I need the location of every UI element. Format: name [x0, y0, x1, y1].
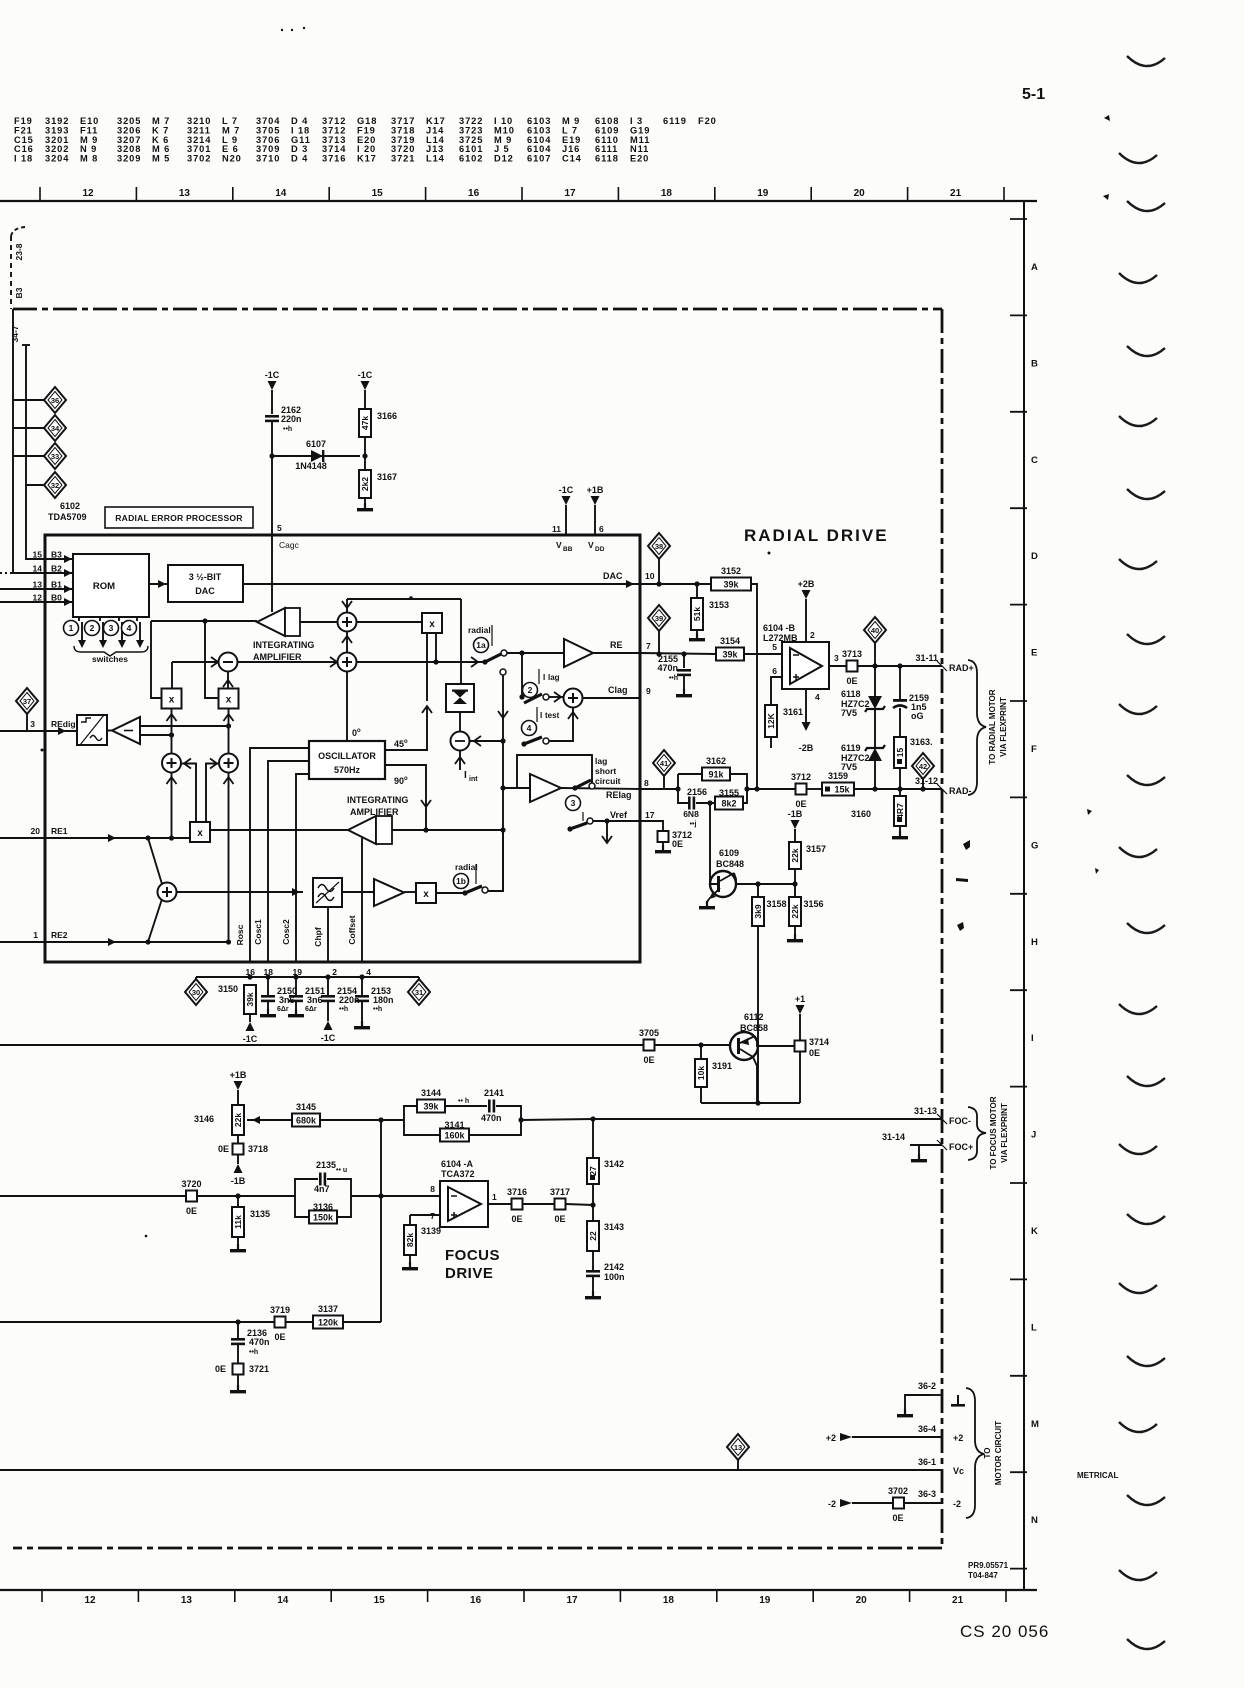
- junction: [145, 939, 150, 944]
- svg-text:31-11: 31-11: [915, 653, 938, 663]
- svg-text:3191: 3191: [712, 1061, 732, 1071]
- resistor 3166: [359, 409, 397, 437]
- junction: [378, 1117, 383, 1122]
- wire into plus1 top: [346, 599, 348, 612]
- svg-text:91k: 91k: [708, 770, 724, 780]
- svg-text:-1C: -1C: [559, 485, 574, 495]
- svg-text:3721: 3721: [249, 1364, 269, 1374]
- switch terminal: [589, 783, 595, 789]
- svg-text:••h: ••h: [249, 1349, 258, 1356]
- resistor 3719 0E: [270, 1305, 290, 1342]
- junction: [675, 786, 680, 791]
- wire: [794, 869, 796, 884]
- svg-text:3136: 3136: [313, 1202, 333, 1212]
- svg-text:18: 18: [661, 188, 673, 199]
- wire ROM to DAC: [149, 583, 168, 585]
- switch lever: [524, 737, 542, 744]
- svg-text:VIA FLEXPRINT: VIA FLEXPRINT: [1000, 1103, 1009, 1163]
- junction: [265, 974, 270, 979]
- svg-text:switches: switches: [92, 654, 128, 664]
- svg-text:I: I: [543, 673, 545, 682]
- wire multD out A: [181, 764, 196, 822]
- svg-text:A: A: [1031, 262, 1038, 273]
- wire: [459, 750, 461, 770]
- wire to FOC node: [521, 1119, 593, 1120]
- wire diag RE1 to plus4: [148, 838, 162, 884]
- comparator triangle: [112, 717, 140, 744]
- wire: [592, 1277, 594, 1295]
- svg-text:M 8: M 8: [80, 154, 98, 164]
- wire: [418, 977, 420, 981]
- svg-text:21: 21: [952, 1595, 964, 1606]
- svg-text:470n: 470n: [481, 1113, 502, 1123]
- wire RE2 to plusR: [228, 773, 230, 943]
- wire: [337, 1196, 351, 1217]
- wire bus vertical: [502, 741, 504, 891]
- resistor 3720 0E: [181, 1179, 201, 1216]
- svg-text:3137: 3137: [318, 1304, 338, 1314]
- switch terminal: [501, 650, 507, 656]
- tick: [536, 707, 538, 722]
- capacitor 2151: [289, 995, 303, 1002]
- svg-text:13: 13: [734, 1443, 742, 1452]
- svg-text:test: test: [545, 711, 560, 720]
- diode 6107 1N4148: [295, 439, 327, 471]
- switch 1a lever: [485, 654, 501, 662]
- switch id 3: [104, 621, 119, 636]
- oscillator block: [309, 741, 385, 779]
- junction: [500, 785, 505, 790]
- svg-text:11k: 11k: [233, 1215, 243, 1229]
- wire par top: [678, 774, 702, 789]
- switch lever: [575, 780, 591, 788]
- wire 6109 base: [710, 803, 717, 884]
- svg-text:I 18: I 18: [14, 154, 33, 164]
- wire: [770, 737, 772, 748]
- junction: [872, 786, 877, 791]
- wire: [700, 1045, 702, 1103]
- chain boundary top: [13, 308, 942, 311]
- svg-text:Coffset: Coffset: [347, 915, 357, 944]
- svg-text:11: 11: [552, 524, 561, 534]
- svg-text:6118: 6118: [841, 689, 861, 699]
- wire: [874, 760, 876, 789]
- wire 36-1 Vc: [0, 1469, 942, 1471]
- svg-text:40: 40: [871, 626, 879, 635]
- wire par bottom: [678, 789, 688, 803]
- wire: [237, 1196, 239, 1249]
- wire to mult A: [356, 621, 422, 623]
- junction: [226, 723, 231, 728]
- svg-text:lag: lag: [548, 673, 560, 682]
- svg-text:Vref: Vref: [610, 810, 628, 820]
- svg-text:x: x: [226, 695, 232, 706]
- low-pass filter block: [313, 878, 342, 907]
- svg-text:39k: 39k: [722, 650, 738, 660]
- wire switch4 to Clag: [549, 708, 573, 741]
- junction: [145, 835, 150, 840]
- wire: [496, 1106, 521, 1120]
- junction: [698, 1042, 703, 1047]
- svg-text:150k: 150k: [313, 1213, 334, 1223]
- svg-text:3160: 3160: [851, 809, 871, 819]
- junction: [755, 1100, 760, 1105]
- wire switch arrow: [102, 622, 104, 645]
- junction: [604, 818, 609, 823]
- wire to pin B3: [26, 345, 45, 559]
- svg-text:3705: 3705: [639, 1028, 659, 1038]
- wire: [327, 1179, 351, 1196]
- svg-text:+2: +2: [953, 1433, 963, 1443]
- svg-text:1b: 1b: [456, 876, 466, 886]
- svg-text:o: o: [357, 728, 361, 734]
- wire to diamond 41: [663, 774, 665, 789]
- svg-text:Rosc: Rosc: [235, 924, 245, 945]
- junction: [500, 738, 505, 743]
- wire 45deg: [385, 633, 427, 750]
- svg-text:K: K: [1031, 1226, 1038, 1237]
- wire RAD+ line: [858, 665, 942, 667]
- svg-text:27: 27: [588, 1166, 598, 1176]
- wire: [606, 821, 608, 843]
- wire: [592, 1119, 594, 1158]
- svg-text:Clag: Clag: [608, 685, 628, 695]
- switch terminal: [587, 818, 593, 824]
- svg-text:3702: 3702: [888, 1486, 908, 1496]
- resistor 3152: [711, 566, 751, 591]
- resistor 3150 39k: [244, 985, 256, 1014]
- svg-text:FOC+: FOC+: [949, 1142, 973, 1152]
- svg-text:V: V: [556, 540, 562, 550]
- junction: [362, 453, 367, 458]
- svg-text:34-7: 34-7: [10, 325, 20, 342]
- wire: [195, 977, 197, 981]
- svg-text:int: int: [469, 776, 478, 783]
- svg-text:7V5: 7V5: [841, 708, 857, 718]
- svg-text:••h: ••h: [373, 1006, 382, 1013]
- junction: [754, 786, 759, 791]
- switch 4 pivot: [521, 741, 526, 746]
- svg-text:6119: 6119: [841, 743, 861, 753]
- resistor 3712 0E: [791, 772, 811, 809]
- wire 6109 emitter: [707, 899, 709, 902]
- wire DAC out: [243, 583, 640, 585]
- svg-text:34: 34: [51, 424, 60, 433]
- power -1B: [231, 1164, 246, 1186]
- svg-text:4: 4: [127, 623, 132, 633]
- multiplier B: [162, 689, 182, 709]
- resistor 3157: [789, 842, 826, 869]
- svg-text:-2: -2: [828, 1499, 836, 1509]
- wire: [655, 1044, 730, 1046]
- svg-text:Cosc1: Cosc1: [253, 919, 263, 945]
- svg-text:36-2: 36-2: [918, 1381, 936, 1391]
- wire to switch 2: [521, 653, 523, 697]
- svg-text:3716: 3716: [507, 1187, 527, 1197]
- svg-text:TCA372: TCA372: [441, 1169, 475, 1179]
- wire: [730, 774, 747, 789]
- svg-text:39k: 39k: [245, 992, 255, 1006]
- wire to switch 1a: [356, 661, 485, 663]
- svg-text:I: I: [464, 770, 467, 781]
- capacitor 2141: [488, 1100, 495, 1113]
- wire to diamond 33: [13, 455, 44, 457]
- wire B1: [0, 588, 73, 590]
- svg-text:3166: 3166: [377, 411, 397, 421]
- wire: [566, 1204, 593, 1205]
- wire minus to plus2: [237, 661, 337, 663]
- svg-text:4n7: 4n7: [314, 1184, 330, 1194]
- svg-text:0E: 0E: [809, 1048, 820, 1058]
- ground: [897, 1409, 913, 1417]
- svg-text:3717: 3717: [550, 1187, 570, 1197]
- capacitor 2150: [261, 995, 275, 1002]
- wire B3 into ROM: [45, 558, 73, 560]
- svg-text:DRIVE: DRIVE: [445, 1265, 493, 1282]
- svg-text:3k9: 3k9: [753, 904, 763, 918]
- wire: [237, 1090, 239, 1105]
- connector diamond 31: [408, 979, 430, 1005]
- svg-text:31-14: 31-14: [882, 1132, 905, 1142]
- svg-text:5: 5: [277, 523, 282, 533]
- svg-text:30: 30: [192, 988, 200, 997]
- svg-text:3167: 3167: [377, 472, 397, 482]
- svg-text:RE1: RE1: [51, 826, 68, 836]
- wire: [249, 1014, 251, 1022]
- tick: [937, 1114, 947, 1124]
- resistor 3713 0E: [842, 649, 862, 686]
- wire w1: [151, 620, 257, 622]
- svg-text:470n: 470n: [249, 1337, 270, 1347]
- current source I int: [451, 732, 470, 751]
- junction: [897, 663, 902, 668]
- wire: [107, 730, 112, 732]
- resistor 3155: [715, 788, 743, 810]
- svg-text:+2: +2: [826, 1433, 836, 1443]
- resistor 3167: [359, 470, 397, 498]
- svg-text:F: F: [1031, 744, 1037, 755]
- switch lever: [570, 823, 587, 829]
- power -2B: [799, 722, 814, 753]
- svg-text:15: 15: [33, 550, 43, 560]
- wire to diamond 40: [874, 641, 876, 666]
- svg-text:17: 17: [645, 810, 655, 820]
- resistor 3137: [313, 1304, 343, 1329]
- ground: [357, 503, 373, 511]
- ground: [689, 633, 705, 641]
- junction: [226, 939, 231, 944]
- svg-text:15: 15: [374, 1595, 386, 1606]
- wire pin7: [410, 1214, 440, 1216]
- junction: [590, 1202, 595, 1207]
- svg-text:2156: 2156: [687, 787, 707, 797]
- DAC block: [168, 565, 243, 602]
- brace: [968, 1107, 986, 1160]
- junction: [920, 786, 925, 791]
- wire: [267, 977, 269, 995]
- svg-text:2: 2: [528, 685, 533, 695]
- svg-text:0E: 0E: [274, 1332, 285, 1342]
- junction: [378, 1193, 383, 1198]
- wire: [523, 1203, 554, 1205]
- svg-text:J: J: [1031, 1130, 1036, 1141]
- integrating amplifier 2: [348, 816, 392, 844]
- svg-text:o: o: [404, 739, 408, 745]
- svg-text:38: 38: [655, 542, 663, 551]
- wire multD out B: [206, 764, 219, 822]
- wire to diamond 37: [26, 712, 28, 731]
- switch id 4: [522, 721, 537, 736]
- wire: [794, 829, 796, 842]
- svg-text:••h: ••h: [669, 675, 678, 682]
- junction: [247, 974, 252, 979]
- svg-text:AMPLIFIER: AMPLIFIER: [350, 807, 399, 817]
- svg-text:I: I: [1031, 1033, 1034, 1044]
- svg-text:F20: F20: [698, 116, 717, 126]
- wire to RE amp: [507, 652, 564, 654]
- svg-text:3153: 3153: [709, 600, 729, 610]
- svg-text:31: 31: [415, 988, 423, 997]
- svg-text:BC848: BC848: [716, 859, 744, 869]
- svg-text:-2: -2: [953, 1499, 961, 1509]
- wire 36-3: [852, 1502, 893, 1504]
- switch 1b pivot: [462, 890, 467, 895]
- wire to REIag amp: [503, 787, 530, 789]
- svg-text:C14: C14: [562, 154, 582, 164]
- switch 2 pivot: [519, 694, 524, 699]
- wire: [78, 617, 80, 621]
- svg-text:D 4: D 4: [291, 154, 308, 164]
- power +1B: [230, 1070, 247, 1090]
- ground: [787, 934, 803, 942]
- resistor 3143: [587, 1221, 624, 1251]
- switch id 4: [122, 621, 137, 636]
- svg-text:6104 -A: 6104 -A: [441, 1159, 474, 1169]
- sample hold block: [446, 684, 474, 712]
- junction: [235, 1319, 240, 1324]
- junction: [169, 732, 174, 737]
- scan marks: [1119, 56, 1165, 1649]
- wire to diamond 38: [658, 557, 660, 584]
- capacitor 2155: [677, 669, 691, 676]
- wire: [237, 1322, 239, 1338]
- resistor 3136: [309, 1202, 337, 1224]
- switch terminal: [543, 694, 549, 700]
- switch lag pivot: [572, 785, 577, 790]
- wire: [899, 666, 901, 699]
- wire B2 into ROM: [45, 572, 73, 574]
- wire: [295, 977, 297, 995]
- svg-text:3161: 3161: [783, 707, 803, 717]
- wire: [361, 1002, 363, 1026]
- wire: [696, 802, 715, 804]
- svg-text:2135: 2135: [316, 1160, 336, 1170]
- svg-text:D12: D12: [494, 154, 514, 164]
- wire: [343, 1321, 381, 1323]
- resistor 3159: [822, 771, 854, 796]
- svg-text:x: x: [423, 889, 429, 900]
- integrating amplifier 1: [257, 608, 300, 636]
- summing node 2: [338, 653, 357, 672]
- multiplier D: [190, 822, 210, 842]
- summing node L: [162, 754, 181, 773]
- wire: [799, 1052, 801, 1104]
- wire par B: [404, 1120, 440, 1135]
- svg-text:CS 20 056: CS 20 056: [960, 1622, 1049, 1641]
- svg-text:15k: 15k: [834, 785, 850, 795]
- capacitor 2142: [586, 1270, 600, 1277]
- svg-text:DAC: DAC: [195, 586, 215, 596]
- junction: [359, 974, 364, 979]
- svg-text:short: short: [595, 766, 616, 776]
- wire Clag out: [583, 697, 641, 699]
- wire multB to plusL: [171, 709, 173, 754]
- svg-text:L: L: [1031, 1322, 1037, 1333]
- connector diamond 36: [44, 387, 66, 413]
- wire amp1 out: [300, 621, 337, 623]
- svg-text:6Δr: 6Δr: [277, 1006, 289, 1013]
- svg-text:DAC: DAC: [603, 571, 623, 581]
- resistor 3163.: [894, 737, 933, 768]
- svg-text:••j: ••j: [690, 821, 697, 828]
- wire switch arrow: [139, 622, 141, 645]
- wire osc 0deg: [346, 631, 348, 741]
- wire: [807, 788, 822, 790]
- svg-text:3158: 3158: [767, 899, 787, 909]
- svg-text:7: 7: [646, 641, 651, 651]
- svg-text:-1C: -1C: [243, 1034, 258, 1044]
- wire switch arrow: [121, 622, 123, 645]
- svg-text:3712: 3712: [791, 772, 811, 782]
- svg-text:circuit: circuit: [595, 776, 621, 786]
- switch 1b lever: [465, 886, 482, 893]
- wire REIag out: [561, 788, 640, 789]
- wire Cosc1: [268, 761, 309, 963]
- svg-text:•• u: •• u: [336, 1167, 347, 1174]
- svg-text:B2: B2: [51, 564, 62, 574]
- ground: [699, 901, 715, 909]
- wire 6112 collector: [753, 1057, 757, 1103]
- svg-text:39: 39: [655, 614, 663, 623]
- svg-text:3152: 3152: [721, 566, 741, 576]
- resistor 3156: [789, 897, 824, 926]
- svg-text:10k: 10k: [696, 1066, 706, 1080]
- svg-text:OSCILLATOR: OSCILLATOR: [318, 751, 376, 761]
- svg-text:41: 41: [660, 759, 668, 768]
- junction: [744, 786, 749, 791]
- svg-text:570Hz: 570Hz: [334, 765, 361, 775]
- resistor 3145: [292, 1102, 320, 1127]
- svg-text:3718: 3718: [248, 1144, 268, 1154]
- wire to diamond 42: [922, 777, 924, 789]
- wire: [267, 1002, 269, 1014]
- svg-text:-1C: -1C: [321, 1033, 336, 1043]
- wire to switch 1b: [436, 892, 464, 894]
- switch id 3: [566, 796, 581, 811]
- capacitor 2136: [231, 1338, 245, 1345]
- svg-text:Chpf: Chpf: [313, 927, 323, 947]
- connector diamond 33: [44, 443, 66, 469]
- svg-text:37: 37: [23, 697, 31, 706]
- wire FOC+: [910, 1144, 942, 1146]
- wire multC to plusR: [228, 709, 230, 754]
- svg-text:DD: DD: [595, 546, 605, 553]
- wire comparator input A: [140, 725, 229, 727]
- top ruler: [0, 200, 1037, 202]
- svg-text:3n6: 3n6: [307, 995, 323, 1005]
- svg-text:2: 2: [810, 630, 815, 640]
- svg-text:20: 20: [854, 188, 866, 199]
